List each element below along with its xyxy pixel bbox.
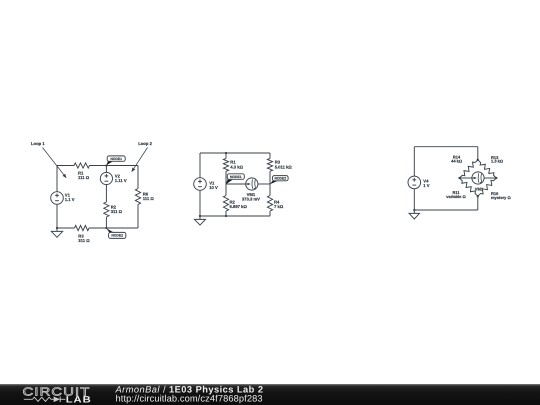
svg-text:NODE2: NODE2 — [111, 234, 123, 238]
wire right-circuit bottom rail — [414, 209, 478, 211]
wire left-circuit bottom rail — [57, 227, 75, 229]
wire middle-circuit branch B upper — [269, 153, 271, 158]
voltage source V1 (middle circuit, 10 V) — [194, 178, 207, 191]
resistor R16 (right circuit, mystery Ω) — [478, 178, 497, 196]
svg-text:311 Ω: 311 Ω — [111, 209, 123, 214]
wire middle-circuit bottom rail — [200, 215, 270, 217]
resistor R2 (middle circuit, 6.897 kΩ) — [223, 196, 228, 212]
wire middle-circuit branch A lower — [225, 184, 227, 196]
junction dot NODE1 (left circuit) — [105, 164, 107, 166]
junction dot diamond left (right circuit) — [458, 177, 460, 179]
wire middle-circuit top rail — [200, 152, 270, 154]
node NODE1 label box (left circuit) — [107, 156, 125, 161]
junction dot diamond top (right circuit) — [477, 159, 479, 161]
svg-text:1.1 V: 1.1 V — [65, 197, 75, 202]
node NODE2 flag pointer (left circuit) — [106, 228, 114, 233]
CircuitLab logo diode symbol — [54, 397, 61, 403]
resistor R3 (middle circuit, 5.011 kΩ) — [267, 158, 272, 171]
node NODE2 label box (middle circuit) — [273, 176, 289, 181]
svg-text:44 kΩ: 44 kΩ — [451, 158, 463, 163]
resistor R4 (middle circuit, 7 kΩ) — [267, 196, 272, 212]
svg-text:1.11 V: 1.11 V — [115, 178, 127, 183]
junction dot NODE2 (left circuit) — [105, 227, 107, 229]
svg-text:111 Ω: 111 Ω — [143, 196, 155, 201]
wire right-circuit top rail — [414, 146, 478, 148]
resistor R1 (left circuit, 111 Ω) — [74, 163, 90, 168]
svg-text:111 Ω: 111 Ω — [78, 175, 90, 180]
svg-text:6.897 kΩ: 6.897 kΩ — [230, 204, 248, 209]
junction dot diamond right (right circuit) — [495, 177, 497, 179]
svg-text:1.3 kΩ: 1.3 kΩ — [491, 159, 504, 164]
node NODE1 label box (middle circuit) — [227, 174, 244, 180]
wire middle-circuit branch A upper — [225, 153, 227, 158]
footer bar background — [0, 384, 540, 405]
svg-text:1 V: 1 V — [423, 183, 429, 188]
wire left-circuit left branch — [56, 166, 58, 192]
svg-text:NODE1: NODE1 — [230, 175, 242, 179]
node NODE2 label box (left circuit) — [109, 232, 126, 238]
wire right-circuit left branch — [413, 147, 415, 176]
wire right-circuit bridge wire — [460, 177, 472, 179]
wire left-circuit right branch — [137, 166, 139, 189]
junction dot ground (right circuit) — [413, 209, 415, 211]
resistor R11 (right circuit, variable Ω) — [460, 178, 478, 196]
svg-text:LAB: LAB — [66, 395, 92, 405]
svg-text:5.011 kΩ: 5.011 kΩ — [275, 164, 293, 169]
svg-text:NODE2: NODE2 — [274, 176, 286, 180]
resistor R6 (left circuit, 111 Ω) — [135, 189, 140, 205]
CircuitLab logo wire-resistor symbol — [33, 397, 52, 401]
wire middle-circuit branch B lower — [269, 184, 271, 196]
svg-text:variable Ω: variable Ω — [446, 194, 466, 199]
svg-text:NODE1: NODE1 — [110, 157, 122, 161]
resistor R1 (middle circuit, 4.3 kΩ) — [223, 158, 228, 171]
svg-text:mystery Ω: mystery Ω — [491, 195, 511, 200]
voltage source V1 (left circuit, 1.1 V) — [51, 192, 64, 205]
junction dot top branch A (middle circuit) — [225, 152, 227, 154]
resistor R2 (left circuit, 311 Ω) — [104, 202, 109, 217]
junction dot ground (left circuit) — [56, 227, 58, 229]
svg-text:10 V: 10 V — [209, 185, 218, 190]
CircuitLab logo text CIRCUIT — [23, 386, 91, 398]
wire left-circuit top rail — [57, 165, 74, 167]
voltage source V2 (left circuit, 1.11 V) — [100, 172, 112, 184]
Loop 1 annotation arrow — [43, 148, 64, 175]
wire middle-circuit left branch — [199, 153, 201, 178]
node NODE2 flag pointer (middle circuit) — [270, 181, 278, 185]
voltage source V4 (right circuit, 1 V) — [408, 176, 421, 189]
node NODE1 flag pointer (left circuit) — [106, 161, 112, 165]
junction dot diamond bottom (right circuit) — [477, 195, 479, 197]
Loop 2 annotation arrow — [134, 148, 148, 169]
wire middle-circuit bridge wire — [226, 183, 246, 185]
ground (left circuit) — [56, 228, 58, 231]
svg-text:http://circuitlab.com/cz4f7868: http://circuitlab.com/cz4f7868pf283 — [116, 393, 263, 403]
svg-text:311 Ω: 311 Ω — [78, 238, 90, 243]
ground (middle circuit) — [199, 216, 201, 219]
voltmeter VM1 (middle circuit, 373.3 mV) — [246, 178, 258, 190]
node NODE1 flag pointer (middle circuit) — [226, 180, 233, 185]
svg-text:Loop 2: Loop 2 — [138, 141, 152, 146]
resistor R13 (right circuit, 1.3 kΩ) — [478, 160, 497, 178]
svg-text:VM1: VM1 — [475, 187, 484, 192]
junction dot bottom branch A (middle circuit) — [225, 215, 227, 217]
svg-text:4.3 kΩ: 4.3 kΩ — [230, 164, 243, 169]
resistor R14 (right circuit, 44 kΩ) — [460, 160, 478, 178]
wire left-circuit middle branch — [105, 166, 107, 173]
CircuitLab logo text LAB — [66, 395, 92, 405]
svg-text:Loop 1: Loop 1 — [31, 141, 45, 146]
resistor R3 (left circuit, 311 Ω) — [75, 225, 90, 230]
voltmeter VM1 (right circuit) — [472, 172, 484, 184]
ground (right circuit) — [413, 210, 415, 213]
svg-text:7 kΩ: 7 kΩ — [274, 204, 284, 209]
junction dot ground (middle circuit) — [199, 215, 201, 217]
svg-text:373.3 mV: 373.3 mV — [242, 196, 260, 201]
